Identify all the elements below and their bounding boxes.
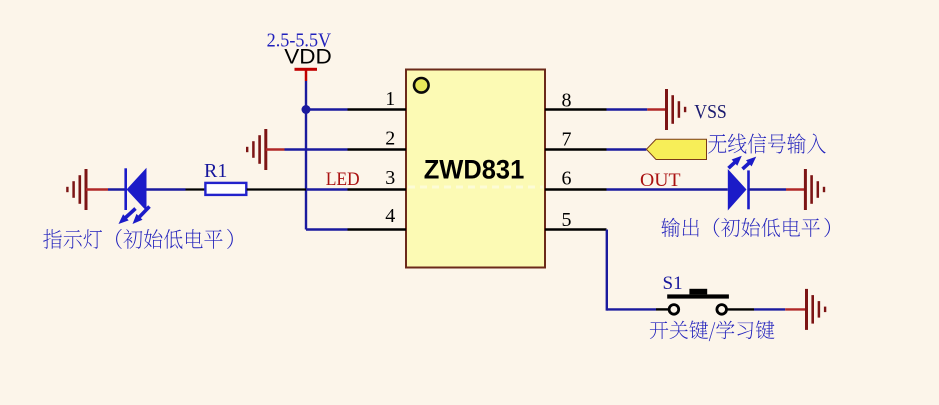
ground G2 stem bbox=[266, 148, 285, 150]
wire pin 8 to ground bbox=[607, 108, 648, 110]
svg-text:5: 5 bbox=[562, 209, 572, 231]
wire LED D2 to ground bbox=[749, 188, 787, 190]
pin 4 of IC bbox=[348, 228, 407, 230]
LED D2 emission arrow a bbox=[729, 160, 738, 168]
LED D2 triangle bbox=[728, 169, 747, 211]
resistor R1 right lead / wire to pin 3 bbox=[247, 188, 306, 190]
svg-text:4: 4 bbox=[385, 205, 395, 227]
wire pin 6 to LED D2 bbox=[607, 188, 728, 190]
svg-text:ZWD831: ZWD831 bbox=[424, 155, 525, 185]
pin 3 of IC bbox=[348, 188, 407, 190]
switch S1 right lead bbox=[728, 308, 755, 310]
IC pin-1 marker circle bbox=[414, 78, 429, 93]
wire ground to LED D1 bbox=[108, 188, 126, 190]
wire pin 5 down bbox=[606, 230, 608, 311]
wire to switch S1 bbox=[607, 308, 656, 310]
wire rail corner to pin 4 bbox=[306, 228, 348, 230]
switch S1 left contact bbox=[669, 305, 679, 315]
wire switch to ground bbox=[754, 308, 785, 310]
port wireless-signal-input flag bbox=[646, 139, 706, 159]
resistor R1 left lead bbox=[186, 188, 206, 190]
label indicator LED (initial low) bbox=[43, 229, 233, 249]
wire crossing to pin 3 bbox=[306, 188, 348, 190]
svg-text:8: 8 bbox=[562, 89, 572, 111]
LED D1 triangle bbox=[127, 168, 147, 211]
ground G3 at VSS bbox=[665, 89, 668, 130]
power symbol VDD stem bbox=[305, 71, 308, 82]
svg-text:3: 3 bbox=[385, 167, 395, 189]
switch S1 actuator bump bbox=[689, 289, 707, 295]
power symbol VDD bar bbox=[295, 68, 318, 71]
switch S1 actuator bar bbox=[667, 294, 729, 298]
ground G3 stem at VSS bbox=[647, 108, 666, 110]
ground G5 stem bbox=[785, 308, 806, 310]
pin 8 of IC bbox=[545, 108, 607, 110]
LED D1 emission arrow b bbox=[137, 207, 150, 220]
ground G5 at switch bbox=[805, 289, 808, 330]
svg-text:6: 6 bbox=[562, 168, 572, 190]
wire VDD stem to junction bbox=[305, 81, 307, 110]
ground G1 at indicator LED bbox=[85, 169, 88, 210]
pin 6 of IC bbox=[545, 188, 607, 190]
pin 5 of IC bbox=[545, 228, 607, 230]
ground G2 near pin 2 bbox=[264, 129, 267, 170]
svg-text:LED: LED bbox=[326, 170, 360, 190]
label wireless signal input bbox=[708, 133, 825, 153]
switch S1 right contact bbox=[717, 305, 727, 315]
svg-text:VSS: VSS bbox=[694, 101, 727, 123]
wire junction to pin 1 bbox=[306, 108, 348, 110]
LED D2 emission arrow b bbox=[743, 161, 752, 169]
pin 1 of IC bbox=[348, 108, 407, 110]
svg-text:R1: R1 bbox=[204, 160, 227, 182]
svg-text:2: 2 bbox=[385, 128, 395, 150]
svg-text:1: 1 bbox=[385, 88, 395, 110]
ground G4 stem bbox=[786, 188, 805, 190]
ground G4 at output LED bbox=[804, 169, 807, 210]
svg-text:2.5-5.5V: 2.5-5.5V bbox=[267, 30, 332, 52]
resistor R1 body bbox=[205, 183, 246, 195]
IC ZWD831 body bbox=[406, 70, 545, 268]
LED D1 cathode bar bbox=[124, 168, 127, 210]
wire vertical VDD rail bbox=[305, 110, 307, 230]
switch S1 left lead bbox=[656, 308, 668, 310]
junction node at VDD rail bbox=[302, 105, 311, 114]
wire LED D1 to R1 bbox=[147, 188, 186, 190]
wire ground to pin 2 bbox=[285, 148, 348, 150]
svg-text:S1: S1 bbox=[663, 273, 683, 294]
svg-text:OUT: OUT bbox=[640, 171, 681, 191]
pin 7 of IC bbox=[545, 148, 607, 150]
LED D2 cathode bar bbox=[747, 170, 750, 209]
wire pin 7 to port bbox=[607, 148, 647, 150]
svg-text:7: 7 bbox=[562, 129, 572, 151]
ground G1 stem bbox=[86, 188, 108, 190]
LED D1 emission arrow a bbox=[123, 209, 136, 221]
label output (initial low) bbox=[661, 218, 830, 237]
label switch key / learn key bbox=[650, 320, 775, 341]
pin 2 of IC bbox=[348, 148, 407, 150]
